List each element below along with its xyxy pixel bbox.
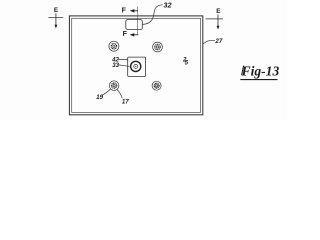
svg-text:19: 19: [96, 94, 103, 101]
bolt top-left: [109, 41, 119, 51]
leader 27: [203, 41, 215, 44]
leader 19: [101, 89, 110, 95]
svg-text:33: 33: [112, 62, 119, 69]
plate inner border: [72, 18, 201, 112]
plate outer border 27: [69, 16, 202, 115]
svg-text:Fig-13: Fig-13: [241, 63, 280, 78]
svg-text:F: F: [122, 8, 127, 15]
leader 17: [117, 90, 122, 99]
bushing 42: [131, 61, 141, 71]
bracket 33: [128, 57, 146, 76]
svg-text:E: E: [216, 8, 221, 15]
bolt bottom-right: [152, 81, 161, 90]
leader 32: [142, 5, 162, 25]
leader 33: [119, 65, 130, 67]
section line F-F: [137, 6, 139, 35]
svg-text:17: 17: [122, 99, 129, 106]
svg-text:27: 27: [214, 38, 222, 45]
svg-text:5: 5: [185, 59, 189, 66]
svg-text:E: E: [54, 7, 59, 14]
bolt top-right: [153, 42, 163, 52]
bolt bottom-left 17/19: [109, 81, 119, 91]
svg-text:F: F: [123, 31, 128, 38]
box 32: [126, 20, 143, 30]
leader 42: [118, 58, 127, 60]
svg-text:32: 32: [163, 1, 172, 10]
